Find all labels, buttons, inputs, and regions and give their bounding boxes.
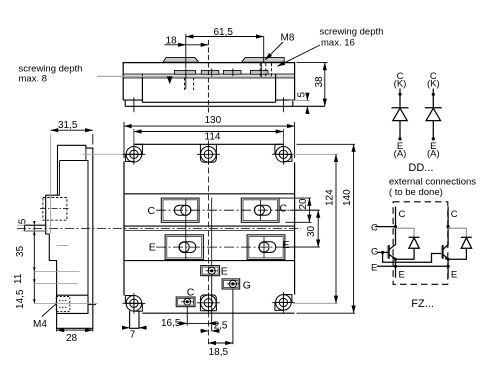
E right screw axis vertical xyxy=(263,237,265,258)
aux terminal E xyxy=(201,266,220,276)
FZ diode D2 symbol xyxy=(461,236,472,238)
module left edge xyxy=(123,161,125,295)
FZ dashed box xyxy=(393,202,448,284)
baseplate foot right xyxy=(276,100,295,106)
module center axis dashed (elevation) xyxy=(207,40,209,113)
module top edge xyxy=(134,143,284,145)
screw pad 4 on deck xyxy=(251,70,269,74)
baseplate bottom edge xyxy=(125,105,325,107)
DD diode 2 node E xyxy=(432,137,435,140)
svg-text:16,5: 16,5 xyxy=(161,318,181,329)
terminal E right box xyxy=(247,235,285,260)
FZ diode D1 bottom link xyxy=(396,248,415,259)
C row center axis dash-dot xyxy=(156,209,320,211)
svg-text:31,5: 31,5 xyxy=(58,120,78,131)
chain tick 35 xyxy=(33,267,36,271)
hidden M8 nut box xyxy=(43,198,67,221)
FZ IGBT Q2 xyxy=(441,245,448,260)
DD diode 1 node E xyxy=(398,137,401,140)
terminal axis tick right column xyxy=(260,62,262,77)
terminal cover bump right xyxy=(242,58,285,63)
mounting ear bottom-left xyxy=(122,293,145,314)
FZ right emitter wire xyxy=(447,259,449,278)
dimension 7 xyxy=(123,327,146,329)
svg-text:screwing depth: screwing depth xyxy=(320,27,384,38)
svg-text:124: 124 xyxy=(325,189,336,206)
FZ right C node xyxy=(447,225,450,228)
DD diode 2 wire top xyxy=(432,89,434,108)
FZ left collector stub xyxy=(395,207,397,246)
svg-text:30: 30 xyxy=(306,225,317,237)
foot axis tick left xyxy=(133,97,135,112)
dimension 130 xyxy=(124,122,295,158)
svg-text:DD...: DD... xyxy=(408,162,433,174)
dimension 18 xyxy=(164,34,208,68)
SECTION: left side view xyxy=(13,120,122,344)
mounting ear bottom-right xyxy=(272,292,295,314)
dimension 61,5 xyxy=(186,37,264,63)
svg-text:E: E xyxy=(149,242,156,254)
C right screw axis vertical xyxy=(259,200,261,221)
FZ right E node upper xyxy=(447,258,450,261)
FZ left emitter wire xyxy=(395,259,397,278)
svg-text:5: 5 xyxy=(297,92,308,98)
svg-text:C: C xyxy=(148,205,156,217)
svg-text:(K): (K) xyxy=(427,79,440,90)
DD diode 1 node C xyxy=(398,93,401,96)
dimension 124 xyxy=(292,154,338,303)
hidden screw dashes left xyxy=(185,78,194,91)
FZ G lead xyxy=(378,251,389,253)
C left screw axis vertical xyxy=(185,199,187,261)
dimension 20 xyxy=(280,198,312,222)
FZ left C node xyxy=(394,225,397,228)
dimension 28 xyxy=(57,328,93,331)
body bottom line between feet xyxy=(142,101,275,103)
svg-text:7: 7 xyxy=(130,329,136,340)
svg-text:E: E xyxy=(371,262,377,273)
lid gray band xyxy=(124,75,294,77)
terminal axis tick G column xyxy=(232,69,234,77)
mounting ear top-middle xyxy=(197,144,220,165)
svg-text:14,5: 14,5 xyxy=(15,289,26,309)
FZ diode D2 top link xyxy=(448,228,466,237)
dimension 140 xyxy=(297,144,356,313)
mounting ear top-right xyxy=(272,144,295,165)
hidden M8 nut pocket dashes right xyxy=(260,63,271,76)
svg-text:11: 11 xyxy=(13,273,24,284)
svg-text:external connections: external connections xyxy=(389,177,476,188)
DD diode 1 labels xyxy=(394,71,407,160)
svg-text:E: E xyxy=(451,270,457,281)
svg-text:M4: M4 xyxy=(33,319,47,330)
chain tick 11 xyxy=(33,279,36,283)
right edge recess xyxy=(88,304,96,306)
svg-text:(A): (A) xyxy=(394,149,407,160)
terminal lug at centerline xyxy=(25,225,46,231)
pedestal mid line lower gray xyxy=(124,230,295,232)
DD diode 1 wire bottom xyxy=(399,121,401,139)
svg-text:(K): (K) xyxy=(394,79,407,90)
svg-text:G: G xyxy=(371,247,378,258)
pedestal top line xyxy=(124,193,295,195)
FZ G node xyxy=(381,251,384,254)
left dimension chain line xyxy=(33,225,35,303)
hole row projection line xyxy=(83,153,122,155)
FZ gate link wire xyxy=(383,252,442,262)
FZ left E node xyxy=(394,265,397,268)
dimension 38 xyxy=(297,63,328,107)
svg-text:C: C xyxy=(399,209,406,220)
foot axis tick right xyxy=(282,97,284,112)
mounting ear bottom-middle xyxy=(197,292,220,313)
svg-text:114: 114 xyxy=(205,131,221,142)
module bottom edge xyxy=(142,312,294,314)
aux terminal C xyxy=(176,297,195,307)
svg-text:2,5: 2,5 xyxy=(214,320,228,331)
terminal C right box xyxy=(241,198,279,222)
svg-text:E: E xyxy=(221,266,228,278)
svg-text:38: 38 xyxy=(314,76,325,88)
svg-text:28: 28 xyxy=(66,333,78,344)
svg-text:130: 130 xyxy=(205,115,222,126)
lid joint line upper xyxy=(123,73,294,75)
svg-text:E: E xyxy=(283,239,290,251)
mounting ear top-left xyxy=(122,144,145,165)
DD diode 2 symbol xyxy=(425,107,442,109)
svg-text:G: G xyxy=(243,280,251,292)
DD diode 2 labels xyxy=(427,71,440,160)
chain leader lines xyxy=(17,225,98,303)
svg-text:FZ...: FZ... xyxy=(411,298,434,310)
dimension 2,5 xyxy=(200,276,219,331)
module body outline (side elevation) xyxy=(123,63,294,101)
end cap line left xyxy=(141,74,143,102)
svg-text:C: C xyxy=(187,286,195,298)
aux terminal G xyxy=(222,279,240,289)
tab below bottom-left ear xyxy=(130,311,139,329)
svg-text:35: 35 xyxy=(15,245,26,257)
svg-text:18: 18 xyxy=(166,35,178,46)
vertical center axis dashed xyxy=(207,141,209,345)
dimension 5 (baseplate) xyxy=(289,96,310,111)
side view outline xyxy=(46,145,93,328)
FZ diode D1 top link xyxy=(396,228,415,237)
svg-text:18,5: 18,5 xyxy=(209,347,229,358)
svg-text:C: C xyxy=(371,223,378,234)
dimension 30 xyxy=(286,210,320,247)
bottom tab block seen from side xyxy=(57,295,88,313)
svg-text:C: C xyxy=(451,209,458,220)
E row center axis dash-dot xyxy=(156,246,320,248)
svg-text:E: E xyxy=(399,270,405,281)
svg-text:61,5: 61,5 xyxy=(214,27,234,38)
module right edge xyxy=(294,162,296,294)
SECTION: top elevation view xyxy=(19,27,384,114)
end cap line right xyxy=(275,74,277,102)
DD diode 1 symbol xyxy=(392,107,409,109)
dimension 16,5 xyxy=(177,307,219,326)
FZ diode D2 bottom link xyxy=(448,248,466,259)
svg-text:C: C xyxy=(280,203,288,215)
FZ left emitter node mid xyxy=(394,258,397,261)
terminal cover bump left xyxy=(163,58,199,63)
FZ right collector stub xyxy=(447,207,449,246)
hidden M4 nut box xyxy=(56,297,70,312)
svg-text:max. 16: max. 16 xyxy=(321,38,355,49)
svg-text:5: 5 xyxy=(18,218,29,224)
FZ emitter bus xyxy=(377,265,448,267)
svg-text:(A): (A) xyxy=(427,149,440,160)
svg-text:max. 8: max. 8 xyxy=(19,74,48,85)
SECTION: circuit diagrams xyxy=(371,71,476,310)
dimension 18,5 xyxy=(208,289,233,344)
terminal axis tick C column xyxy=(185,69,187,90)
SECTION: main plan view xyxy=(17,115,355,358)
lid joint line lower xyxy=(123,77,294,79)
E aux column axis xyxy=(211,198,213,266)
pedestal mid line upper xyxy=(124,225,295,227)
screw pad 3 on deck xyxy=(224,70,242,74)
FZ external C lead xyxy=(375,226,396,228)
FZ diode D1 symbol xyxy=(409,236,420,238)
horizontal center axis dash-dot xyxy=(17,227,301,229)
svg-text:( to be done): ( to be done) xyxy=(389,187,443,198)
FZ IGBT Q1 xyxy=(387,245,395,260)
dimension 114 xyxy=(134,129,284,148)
svg-text:20: 20 xyxy=(298,198,309,210)
DD diode 2 node C xyxy=(432,93,435,96)
pedestal bottom line xyxy=(124,260,295,262)
baseplate foot left xyxy=(123,100,142,106)
side lid joint xyxy=(60,160,89,162)
terminal E left box xyxy=(165,235,203,260)
svg-text:140: 140 xyxy=(342,189,353,206)
chain tick 14,5 xyxy=(33,299,36,303)
FZ right E node lower xyxy=(447,265,450,268)
chain arrows 5 xyxy=(33,221,36,225)
terminal C left box xyxy=(161,198,199,222)
screw pad 1 on deck xyxy=(174,70,195,74)
DD diode 2 wire bottom xyxy=(432,121,434,139)
DD diode 1 wire top xyxy=(399,89,401,108)
terminal axis tick E column xyxy=(211,69,213,77)
screw pad 2 on deck xyxy=(201,70,219,74)
dimension 31,5 xyxy=(51,130,93,233)
